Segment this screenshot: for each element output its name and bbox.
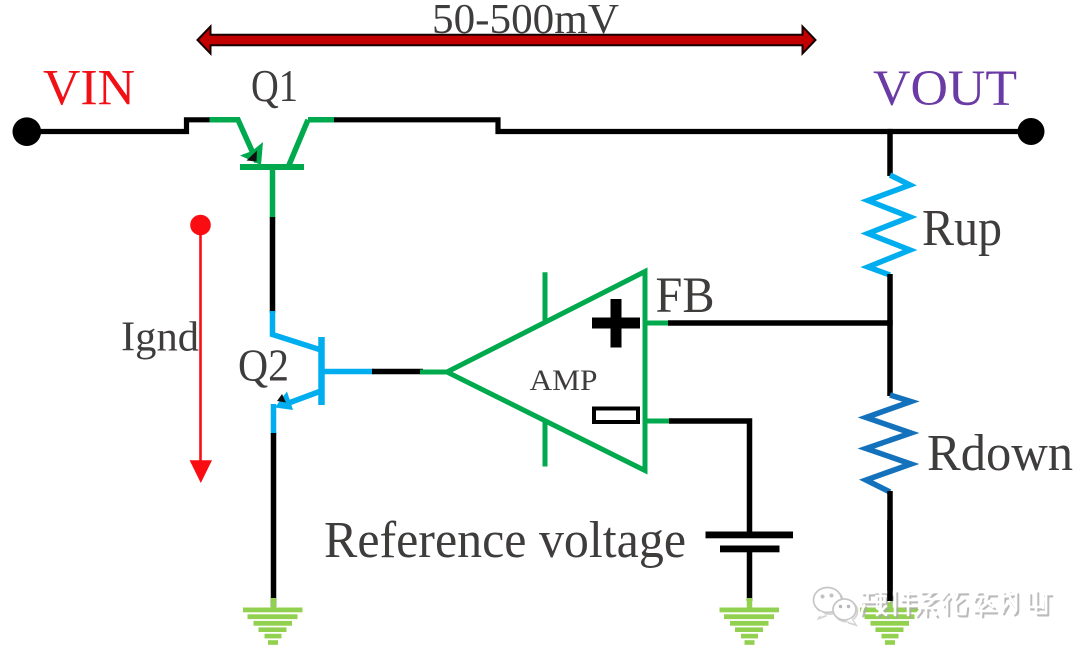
- capacitor C1 reference voltage: [706, 532, 794, 553]
- inverting input minus: [594, 409, 638, 423]
- svg-text:Ignd: Ignd: [121, 315, 199, 361]
- node VOUT terminal: [1018, 118, 1045, 145]
- svg-text:50-500mV: 50-500mV: [432, 0, 619, 43]
- wire Rdown to ground: [887, 491, 893, 601]
- resistor Rup: [868, 175, 910, 275]
- wire AMP minus input to reference capacitor: [669, 421, 750, 532]
- ground at Q2 emitter: [243, 598, 303, 645]
- watermark text strokes: [863, 593, 1052, 617]
- node VIN terminal: [12, 117, 41, 146]
- junction node: FB net at divider midpoint: [887, 320, 893, 326]
- watermark: [814, 588, 1053, 626]
- svg-text:Q2: Q2: [238, 340, 289, 391]
- watermark icon chat bubbles: [814, 588, 858, 626]
- svg-text:Rdown: Rdown: [927, 425, 1073, 482]
- wire Q1 collector-lead down to Q2: [270, 217, 276, 313]
- svg-text:VOUT: VOUT: [873, 61, 1017, 117]
- transistor Q1: [210, 120, 335, 218]
- non-inverting input plus: [592, 299, 640, 348]
- ground at Rdown: [860, 598, 920, 645]
- wire Q2 base to AMP output: [372, 369, 423, 375]
- wire Rdown to ground (over watermark): [887, 520, 893, 601]
- ground at reference capacitor: [720, 598, 780, 645]
- op-amp AMP: [420, 272, 671, 471]
- wire capacitor to ground: [747, 552, 753, 601]
- annotation arrow 50-500mV: [198, 27, 816, 54]
- svg-text:AMP: AMP: [530, 364, 598, 397]
- transistor Q2: [273, 311, 375, 435]
- wire FB: AMP plus input to divider junction: [668, 320, 892, 326]
- wire Rup to Rdown (FB node): [887, 274, 893, 396]
- junction node: VOUT rail to divider tap: [887, 129, 892, 134]
- svg-text:VIN: VIN: [43, 61, 135, 117]
- wire Q1 collector to VOUT terminal: [332, 120, 1031, 132]
- svg-text:Rup: Rup: [922, 200, 1002, 257]
- svg-text:Reference voltage: Reference voltage: [324, 512, 686, 569]
- wire Q2 emitter to ground: [271, 433, 277, 607]
- resistor Rdown: [866, 395, 911, 492]
- wire VIN terminal to Q1 emitter: [27, 120, 213, 132]
- svg-text:FB: FB: [656, 268, 715, 324]
- svg-text:Q1: Q1: [251, 60, 298, 111]
- current arrow Ignd: [190, 215, 212, 483]
- wire VOUT junction down to Rup: [887, 132, 893, 177]
